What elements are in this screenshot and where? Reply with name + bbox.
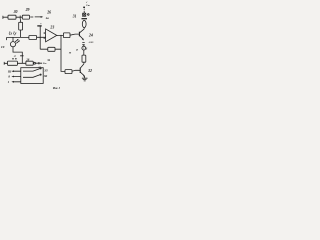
svg-text:28: 28 [25, 57, 29, 61]
svg-text:29: 29 [25, 8, 30, 12]
svg-text:Uы: Uы [43, 62, 47, 65]
svg-text:Ш: Ш [7, 69, 12, 73]
svg-text:23: 23 [49, 25, 54, 29]
svg-text:24: 24 [88, 34, 93, 38]
svg-text:36: 36 [43, 74, 48, 78]
svg-text:31: 31 [72, 14, 77, 18]
svg-text:35: 35 [43, 68, 48, 72]
svg-text:t≈25: t≈25 [89, 41, 94, 44]
svg-text:26: 26 [46, 11, 51, 15]
svg-text:3Σ: 3Σ [37, 66, 41, 69]
svg-text:Uш: Uш [86, 4, 90, 7]
svg-text:Фиг. 3: Фиг. 3 [53, 87, 61, 90]
svg-text:ξx ξy: ξx ξy [9, 30, 17, 35]
svg-text:30: 30 [13, 10, 18, 14]
svg-text:tы: tы [46, 16, 49, 20]
svg-text:19: 19 [1, 45, 5, 49]
svg-text:34: 34 [46, 58, 50, 62]
svg-text:32: 32 [87, 69, 92, 73]
